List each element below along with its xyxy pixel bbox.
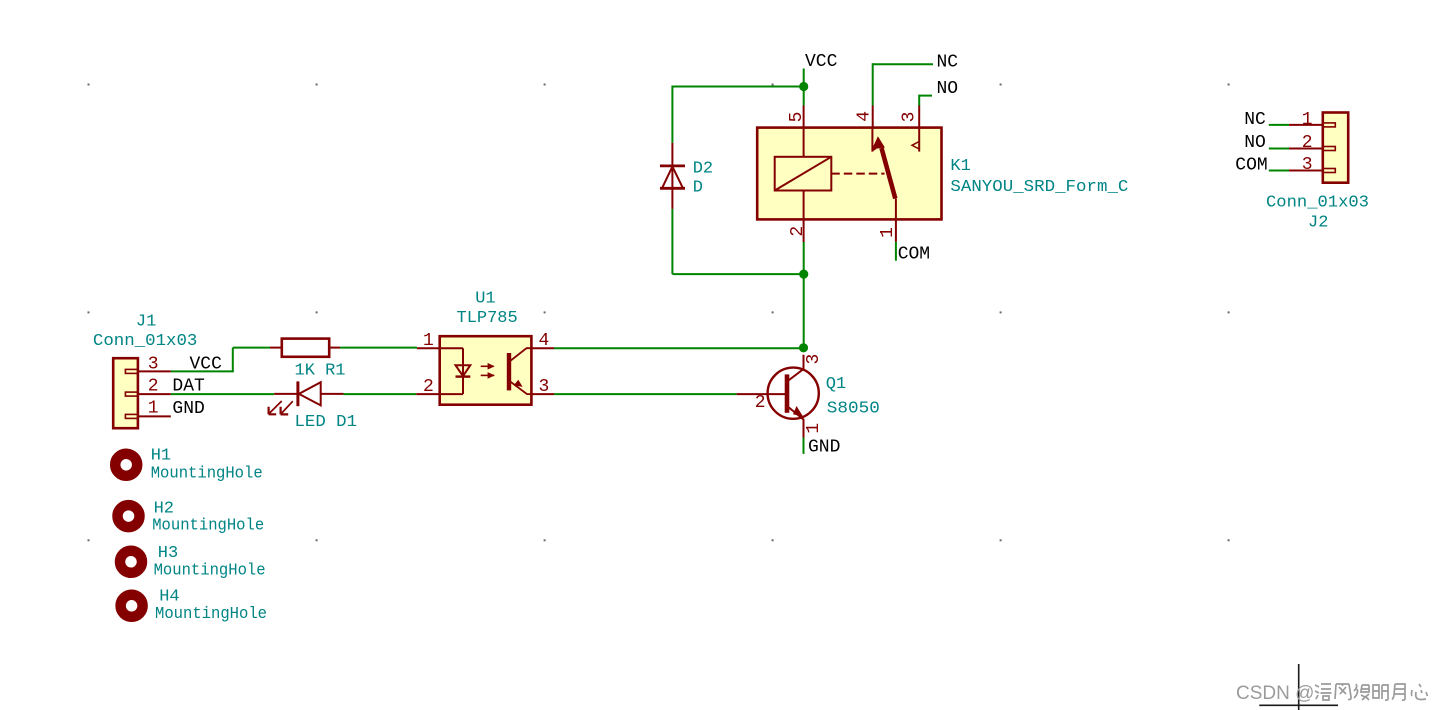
svg-text:COM: COM — [898, 245, 930, 265]
svg-text:J2: J2 — [1308, 214, 1328, 233]
svg-text:3: 3 — [804, 354, 824, 365]
LED D1 emission arrows — [269, 401, 293, 414]
relay K1 body — [757, 128, 941, 220]
svg-text:2: 2 — [1302, 133, 1313, 153]
svg-text:CSDN @: CSDN @ — [1236, 683, 1314, 704]
svg-text:MountingHole: MountingHole — [152, 517, 264, 536]
optocoupler U1 coupling arrows — [481, 364, 495, 377]
wire — [554, 393, 737, 395]
svg-text:1: 1 — [878, 227, 898, 238]
svg-text:1: 1 — [148, 399, 159, 419]
connector J1 pin stubs — [125, 369, 137, 418]
svg-text:TLP785: TLP785 — [457, 309, 518, 328]
LED D1 — [274, 381, 343, 406]
svg-text:S8050: S8050 — [827, 400, 880, 419]
svg-text:GND: GND — [172, 399, 204, 419]
svg-text:H1: H1 — [151, 447, 171, 466]
svg-text:U1: U1 — [475, 290, 495, 309]
wire — [233, 347, 270, 349]
svg-text:COM: COM — [1235, 156, 1267, 176]
svg-text:Conn_01x03: Conn_01x03 — [1266, 194, 1369, 213]
junction node collector — [799, 343, 808, 352]
svg-text:NC: NC — [1244, 110, 1266, 130]
wire — [872, 63, 874, 105]
optocoupler U1 pin 1 — [417, 347, 440, 349]
wire — [344, 393, 417, 395]
svg-text:1: 1 — [423, 331, 434, 351]
wire — [1269, 124, 1289, 126]
svg-text:K1: K1 — [950, 157, 970, 176]
wire — [671, 86, 673, 143]
svg-text:4: 4 — [539, 331, 550, 351]
svg-text:MountingHole: MountingHole — [154, 562, 266, 581]
connector J2 body — [1323, 113, 1348, 183]
svg-text:GND: GND — [808, 438, 840, 458]
connector J2 pin stubs — [1323, 123, 1336, 173]
wire — [554, 347, 803, 349]
svg-text:2: 2 — [423, 377, 434, 397]
wire — [232, 348, 234, 372]
svg-text:Conn_01x03: Conn_01x03 — [93, 332, 197, 351]
wire — [803, 69, 805, 106]
wire — [171, 370, 234, 372]
watermark hanzi (vector approximation) — [1315, 684, 1428, 700]
wire — [672, 273, 803, 275]
svg-text:5: 5 — [787, 112, 807, 123]
svg-text:NC: NC — [937, 53, 959, 73]
wire — [1269, 170, 1289, 172]
wire — [919, 95, 932, 97]
svg-text:J1: J1 — [136, 313, 156, 332]
wire — [340, 347, 417, 349]
svg-text:NO: NO — [937, 79, 959, 99]
connector J2 pin 3 — [1289, 170, 1323, 172]
transistor Q1 — [737, 355, 819, 438]
wire — [803, 438, 805, 454]
wire — [873, 63, 933, 65]
wire — [1269, 148, 1289, 150]
optocoupler U1 pin 2 — [416, 393, 440, 395]
mounting hole H3 — [120, 551, 142, 573]
optocoupler U1 pin 4 — [531, 347, 554, 349]
svg-text:Q1: Q1 — [826, 375, 846, 394]
wire — [171, 393, 274, 395]
svg-text:1: 1 — [804, 423, 824, 434]
connector J1 pin 2 — [138, 393, 171, 395]
svg-text:NO: NO — [1244, 133, 1266, 153]
connector J2 pin 2 — [1289, 148, 1323, 150]
svg-text:2: 2 — [788, 226, 808, 237]
relay K1 NO contact mark — [912, 142, 919, 150]
relay K1 pin 5 — [803, 106, 805, 128]
connector J1 body — [113, 358, 138, 428]
relay K1 switch arm — [872, 128, 919, 220]
relay K1 pin 1 — [895, 219, 897, 241]
svg-text:DAT: DAT — [172, 377, 205, 397]
svg-text:LED D1: LED D1 — [295, 413, 358, 432]
wire — [803, 242, 805, 348]
optocoupler U1 body — [440, 336, 532, 405]
optocoupler U1 phototransistor — [509, 348, 531, 394]
connector J1 pin 1 — [138, 415, 171, 417]
svg-text:VCC: VCC — [805, 52, 838, 72]
optocoupler U1 internal LED — [440, 348, 471, 394]
relay K1 pin 3 — [918, 106, 920, 128]
relay K1 pin 4 — [872, 106, 874, 128]
svg-text:MountingHole: MountingHole — [151, 465, 263, 484]
svg-text:D2: D2 — [693, 160, 713, 179]
svg-text:2: 2 — [148, 377, 159, 397]
mounting hole H1 — [115, 454, 137, 476]
resistor R1 — [270, 339, 340, 357]
wire — [918, 95, 920, 106]
diode D2 — [660, 143, 685, 209]
svg-text:H4: H4 — [159, 588, 179, 607]
svg-text:3: 3 — [1302, 155, 1313, 175]
svg-text:3: 3 — [539, 377, 550, 397]
relay K1 pin 2 — [803, 219, 805, 242]
svg-text:4: 4 — [855, 111, 875, 122]
svg-text:MountingHole: MountingHole — [155, 605, 267, 624]
wire — [671, 209, 673, 274]
mounting hole H2 — [118, 505, 140, 527]
svg-text:2: 2 — [755, 393, 766, 413]
mounting hole H4 — [121, 595, 143, 617]
svg-text:VCC: VCC — [190, 355, 223, 375]
svg-text:3: 3 — [148, 355, 159, 375]
junction node coil-bottom — [799, 270, 808, 279]
optocoupler U1 pin 3 — [531, 393, 554, 395]
svg-text:H3: H3 — [158, 544, 178, 563]
connector J1 pin 3 — [138, 370, 171, 372]
wire — [895, 242, 897, 261]
watermark crosshair — [1259, 664, 1338, 710]
svg-text:1K R1: 1K R1 — [295, 362, 346, 381]
svg-text:3: 3 — [900, 112, 920, 123]
junction node VCC — [799, 82, 808, 91]
connector J2 pin 1 — [1289, 124, 1323, 126]
svg-text:1: 1 — [1302, 110, 1313, 130]
relay K1 dashed link — [831, 173, 884, 175]
svg-text:D: D — [693, 179, 703, 198]
svg-text:SANYOU_SRD_Form_C: SANYOU_SRD_Form_C — [950, 178, 1128, 197]
relay K1 coil — [775, 128, 832, 220]
wire — [672, 86, 803, 88]
